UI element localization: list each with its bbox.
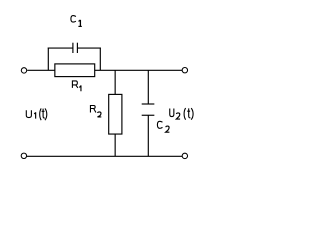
wire top right segment: [95, 69, 183, 71]
input terminal bottom-left: [21, 153, 26, 158]
input terminal top-left: [21, 68, 26, 73]
wire R2 top stem: [114, 70, 116, 94]
wire bottom: [27, 155, 182, 157]
wire C2 top stem: [147, 70, 149, 104]
wire C1 loop right vertical: [99, 48, 101, 71]
wire C1 loop top-right horizontal: [78, 47, 101, 49]
output terminal bottom-right: [182, 153, 187, 158]
capacitor C1: [73, 43, 78, 53]
label C1: [71, 16, 82, 27]
label U1(t): [26, 108, 47, 120]
label U2(t): [170, 108, 193, 120]
resistor R2: [109, 94, 122, 134]
wire R2 bottom stem: [114, 134, 116, 156]
label R1: [72, 81, 81, 91]
wire C1 loop top-left horizontal: [48, 47, 73, 49]
capacitor C2: [142, 104, 155, 115]
resistor R1: [55, 64, 95, 77]
output terminal top-right: [182, 68, 187, 73]
wire C2 bottom stem: [147, 115, 149, 156]
label R2: [90, 106, 101, 117]
label C2: [157, 121, 169, 132]
wire top left segment: [27, 69, 55, 71]
wire C1 loop left vertical: [47, 48, 49, 71]
